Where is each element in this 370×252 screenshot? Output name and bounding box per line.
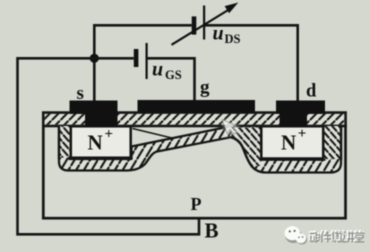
svg-text:N: N <box>88 131 103 155</box>
svg-text:P: P <box>191 194 202 214</box>
char 2 <box>321 230 331 241</box>
wire: s vertical <box>93 24 96 101</box>
char 1 <box>309 231 319 242</box>
battery uDS negative plate <box>192 16 197 34</box>
oxide bottom line <box>42 125 347 128</box>
svg-text:GS: GS <box>165 68 182 82</box>
char 5 <box>353 230 364 241</box>
electrode g <box>138 100 256 113</box>
ribbon outer edge left <box>58 126 60 159</box>
svg-text:N: N <box>281 131 296 155</box>
node junction dot <box>90 54 99 63</box>
channel dip outer edge <box>231 137 252 166</box>
svg-text:s: s <box>77 83 84 104</box>
N+ diffusion hatched ribbon (left well, channel, right well) <box>59 126 341 173</box>
N+ region right <box>261 126 323 158</box>
char 4 <box>342 230 353 241</box>
depletion corner line <box>133 129 175 139</box>
watermark logo (chat bubbles) <box>285 226 308 244</box>
wire: uGS to g <box>147 58 195 100</box>
svg-text:u: u <box>213 23 224 45</box>
svg-text:+: + <box>298 126 307 142</box>
battery uGS negative plate <box>134 49 139 67</box>
wire: node to uGS <box>94 57 134 60</box>
svg-text:B: B <box>205 219 219 243</box>
variable source arrow <box>172 10 230 45</box>
svg-text:d: d <box>306 82 317 102</box>
watermark text shadow <box>310 231 365 242</box>
electrode s <box>70 101 118 127</box>
wire: node left and down to bottom <box>18 58 200 234</box>
mouse cursor <box>221 113 243 139</box>
wire: uDS to d corner and down <box>205 25 298 101</box>
watermark text (stroke approximation of CJK) <box>309 230 364 241</box>
wire: top from s to uDS <box>94 24 192 27</box>
svg-text:u: u <box>152 59 163 81</box>
electrode d <box>276 101 325 127</box>
ribbon outer edge right <box>340 126 342 160</box>
substrate box P region <box>43 113 345 219</box>
battery uDS positive plate <box>203 6 205 40</box>
N+ region left <box>71 126 131 157</box>
side band hatch direction overlays <box>58 126 343 166</box>
svg-text:DS: DS <box>225 32 241 46</box>
svg-text:+: + <box>105 127 114 143</box>
oxide layer hatched band <box>45 114 345 125</box>
svg-text:g: g <box>200 77 210 98</box>
battery uGS positive plate <box>146 43 148 79</box>
char 3 <box>331 230 342 241</box>
